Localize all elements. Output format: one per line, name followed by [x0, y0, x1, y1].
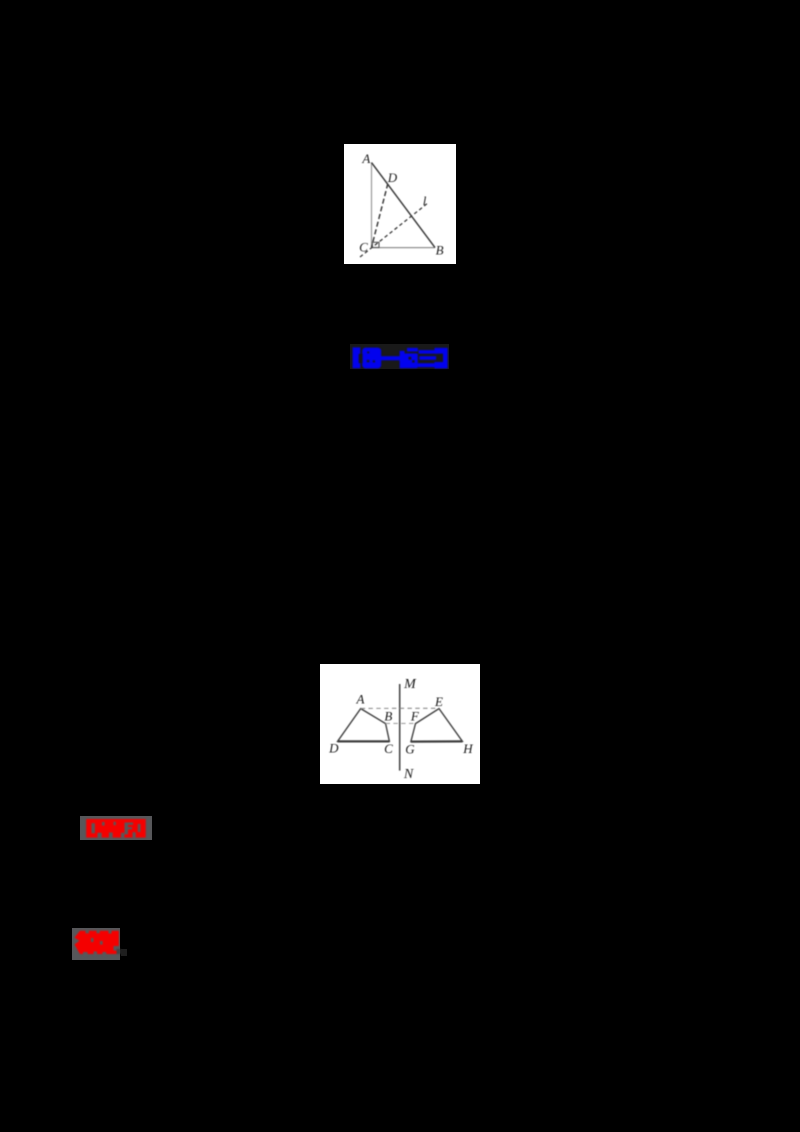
svg-text:D: D [328, 741, 339, 756]
svg-text:H: H [462, 741, 473, 756]
svg-text:M: M [403, 677, 417, 692]
svg-text:E: E [434, 694, 443, 709]
svg-text:C: C [359, 239, 368, 254]
svg-text:N: N [403, 767, 414, 782]
svg-text:B: B [384, 709, 392, 724]
svg-text:A: A [361, 151, 370, 166]
svg-text:l: l [423, 193, 427, 208]
svg-text:A: A [356, 692, 365, 707]
svg-text:D: D [387, 170, 398, 185]
svg-text:B: B [436, 243, 444, 258]
svg-text:F: F [410, 709, 420, 724]
svg-text:C: C [384, 741, 393, 756]
svg-text:G: G [405, 742, 415, 757]
